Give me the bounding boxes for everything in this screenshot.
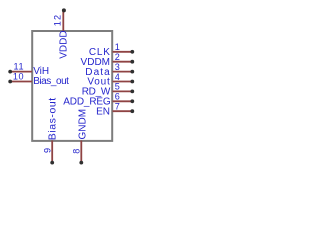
pin 3 wire (right, Data) [113,71,132,73]
svg-text:10: 10 [13,71,24,81]
pin 4 open end dot [130,80,134,84]
pin 5 wire (right, RD_W) [113,90,132,92]
pin 12 wire (top, VDDD) [62,10,64,31]
svg-text:12: 12 [53,14,63,27]
pin 7 open end dot [130,109,134,113]
pin 11 wire (left, ViH) [12,71,33,73]
pin 5 open end dot [130,90,134,94]
symbol body U1 [32,31,112,141]
pin 10 open end dot [8,80,12,84]
pin 6 open end dot [130,99,134,103]
pin 1 open end dot [130,50,134,54]
svg-text:8: 8 [72,149,82,154]
svg-text:4: 4 [115,72,121,82]
svg-text:Bias_out: Bias_out [33,76,69,87]
svg-text:Bias-out: Bias-out [47,97,59,140]
svg-text:2: 2 [115,52,121,62]
svg-text:7: 7 [115,102,121,112]
pin 1 wire (right, CLK) [113,51,132,53]
pin 6 wire (right, ADD_REG) [113,100,132,102]
pin 2 open end dot [130,60,134,64]
pin 2 wire (right, VDDM) [113,61,132,63]
pin 10 wire (left, Bias_out) [12,81,33,83]
svg-text:9: 9 [43,148,53,153]
pin 11 open end dot [8,70,12,74]
pin 8 open end dot [79,161,83,165]
svg-text:VDDD: VDDD [59,30,70,58]
pin 9 wire (bottom, Bias-out) [51,141,53,162]
svg-text:5: 5 [115,82,121,92]
svg-text:3: 3 [115,62,121,72]
svg-text:1: 1 [115,42,121,52]
pin 4 wire (right, Vout) [113,81,132,83]
svg-text:EN: EN [96,106,110,117]
svg-text:6: 6 [115,92,121,102]
pin 8 wire (bottom, GNDM) [80,141,82,162]
pin 3 open end dot [130,70,134,74]
pin 9 open end dot [50,161,54,165]
pin 7 wire (right, EN) [113,110,132,112]
svg-text:11: 11 [13,61,24,71]
svg-text:GNDM: GNDM [78,109,89,140]
pin 12 open end dot [62,8,66,12]
